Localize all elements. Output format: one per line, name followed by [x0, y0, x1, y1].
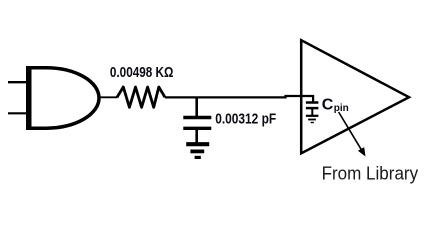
wire resistor to buffer: [165, 96, 301, 97]
wire junction stem: [195, 97, 198, 116]
annotation arrow: [339, 112, 366, 157]
svg-text:From Library: From Library: [322, 163, 419, 183]
buffer triangle: [301, 40, 409, 153]
resistor 0.00498 KOhm: [117, 87, 165, 107]
svg-text:0.00498 KΩ: 0.00498 KΩ: [110, 65, 174, 81]
wire into buffer to Cpin: [300, 96, 313, 102]
capacitor Cpin: [306, 103, 319, 116]
wire input A: [8, 81, 28, 83]
svg-text:0.00312 pF: 0.00312 pF: [215, 111, 276, 127]
wire input B: [8, 112, 28, 114]
ground: [186, 144, 209, 157]
capacitor 0.00312 pF: [183, 118, 211, 143]
wire gate output to resistor: [99, 96, 118, 98]
ground inside buffer: [306, 116, 319, 123]
AND gate: [29, 66, 99, 130]
svg-text:Cpin: Cpin: [322, 97, 349, 114]
